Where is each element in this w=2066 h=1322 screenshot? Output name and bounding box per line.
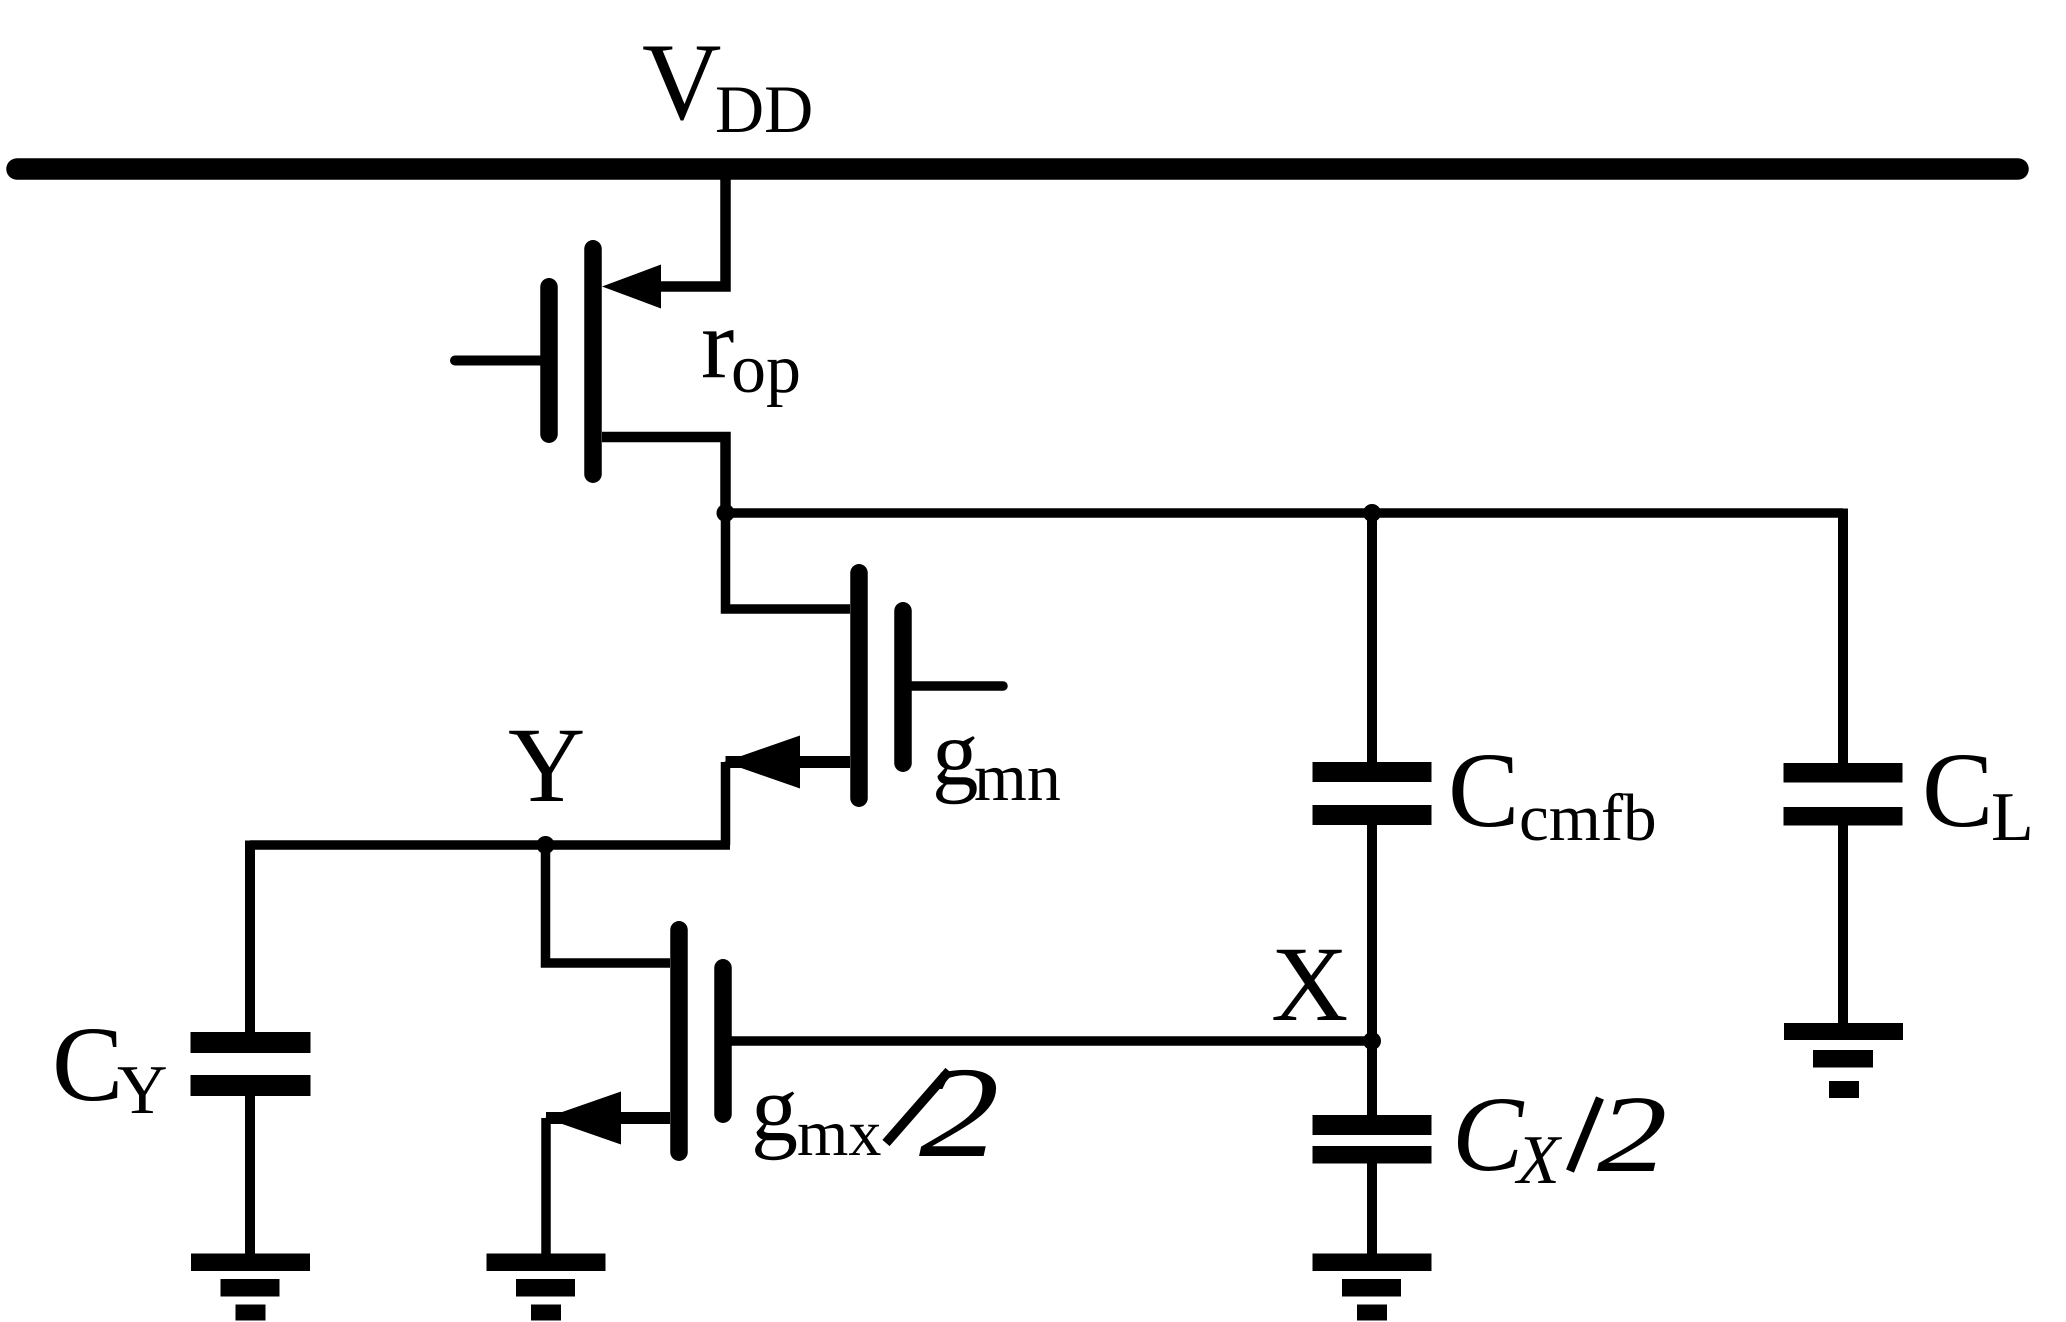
capacitor C_X/2: [1313, 1115, 1432, 1164]
wire: C_cmfb to node X: [1367, 825, 1377, 1041]
label C_L: [1922, 732, 2034, 856]
label g_mn: [932, 702, 1061, 815]
net label VDD: [642, 21, 813, 147]
wire: output net horizontal to C_L: [726, 508, 1844, 518]
svg-text:C: C: [1922, 732, 1993, 850]
transistor g_mx/2 source stub: [546, 1112, 670, 1124]
ground (g_mx/2 source): [487, 1254, 606, 1321]
label g_mx/2: [751, 1041, 1000, 1185]
svg-text:X: X: [1271, 926, 1348, 1044]
label C_Y: [52, 1006, 168, 1129]
junction dot node X: [1363, 1032, 1381, 1050]
svg-text:C: C: [1448, 732, 1519, 850]
svg-text:C: C: [1452, 1076, 1525, 1194]
transistor r_op channel bar: [584, 249, 602, 474]
junction dot node A (output net): [717, 504, 735, 522]
svg-text:2: 2: [919, 1041, 1000, 1185]
ground (C_L): [1784, 1023, 1903, 1098]
transistor r_op source arrow: [602, 265, 661, 309]
svg-text:C: C: [52, 1006, 123, 1124]
transistor g_mx/2 source arrow: [545, 1092, 621, 1145]
transistor g_mn gate lead: [903, 681, 1003, 691]
svg-text:g: g: [751, 1057, 798, 1161]
transistor g_mx/2 channel bar: [670, 930, 688, 1152]
svg-text:mx: mx: [797, 1097, 881, 1170]
transistor g_mx/2 gate bar: [714, 968, 732, 1114]
svg-text:op: op: [731, 331, 801, 408]
svg-text:2: 2: [1597, 1073, 1667, 1195]
capacitor C_Y: [191, 1032, 311, 1254]
wire: g_mn source down to node Y: [721, 762, 731, 845]
label C_X/2: [1452, 1073, 1667, 1199]
svg-text:Y: Y: [117, 1052, 168, 1129]
wire: C_X/2 to ground: [1367, 1164, 1377, 1255]
svg-text:X: X: [1514, 1122, 1563, 1199]
junction dot at C_cmfb tap: [1363, 504, 1381, 522]
ground (C_X/2): [1313, 1254, 1432, 1321]
label C_cmfb: [1448, 732, 1657, 855]
wire: node X to C_X/2: [1367, 1041, 1377, 1115]
junction dot node Y: [537, 836, 555, 854]
svg-text:cmfb: cmfb: [1519, 781, 1657, 855]
wire: node Y to g_mx/2 drain: [546, 845, 671, 963]
VDD power rail: [17, 158, 2018, 180]
wire: r_op drain to node A: [602, 437, 726, 513]
svg-text:r: r: [701, 288, 734, 399]
transistor g_mn channel bar: [850, 573, 868, 798]
transistor g_mn source arrow: [724, 736, 800, 789]
wire: g_mx/2 source to ground: [541, 1118, 551, 1254]
svg-text:DD: DD: [715, 71, 813, 147]
transistor g_mn source stub: [726, 756, 851, 768]
wire: node A down to g_mn drain: [726, 513, 851, 609]
wire: node Y down to C_Y: [245, 841, 255, 1033]
transistor r_op gate lead: [455, 356, 549, 366]
node Y wire: [250, 840, 730, 850]
transistor g_mn gate bar: [894, 611, 912, 763]
svg-text:L: L: [1991, 779, 2034, 856]
capacitor C_L: [1784, 763, 1903, 826]
transistor r_op gate bar: [540, 287, 558, 434]
wire: g_mx/2 gate to node X: [723, 1036, 1372, 1046]
wire: VDD rail to r_op source: [650, 169, 726, 287]
label r_op: [701, 288, 801, 408]
svg-text:mn: mn: [974, 739, 1061, 815]
svg-text:g: g: [932, 702, 979, 805]
svg-text:Y: Y: [508, 707, 585, 825]
wire: output net down to C_cmfb: [1367, 513, 1377, 762]
ground (C_Y): [191, 1254, 310, 1321]
wire: C_L to ground: [1838, 825, 1848, 1023]
svg-text:V: V: [642, 21, 721, 143]
wire: output net down to C_L: [1838, 509, 1848, 764]
capacitor C_cmfb: [1313, 762, 1432, 825]
